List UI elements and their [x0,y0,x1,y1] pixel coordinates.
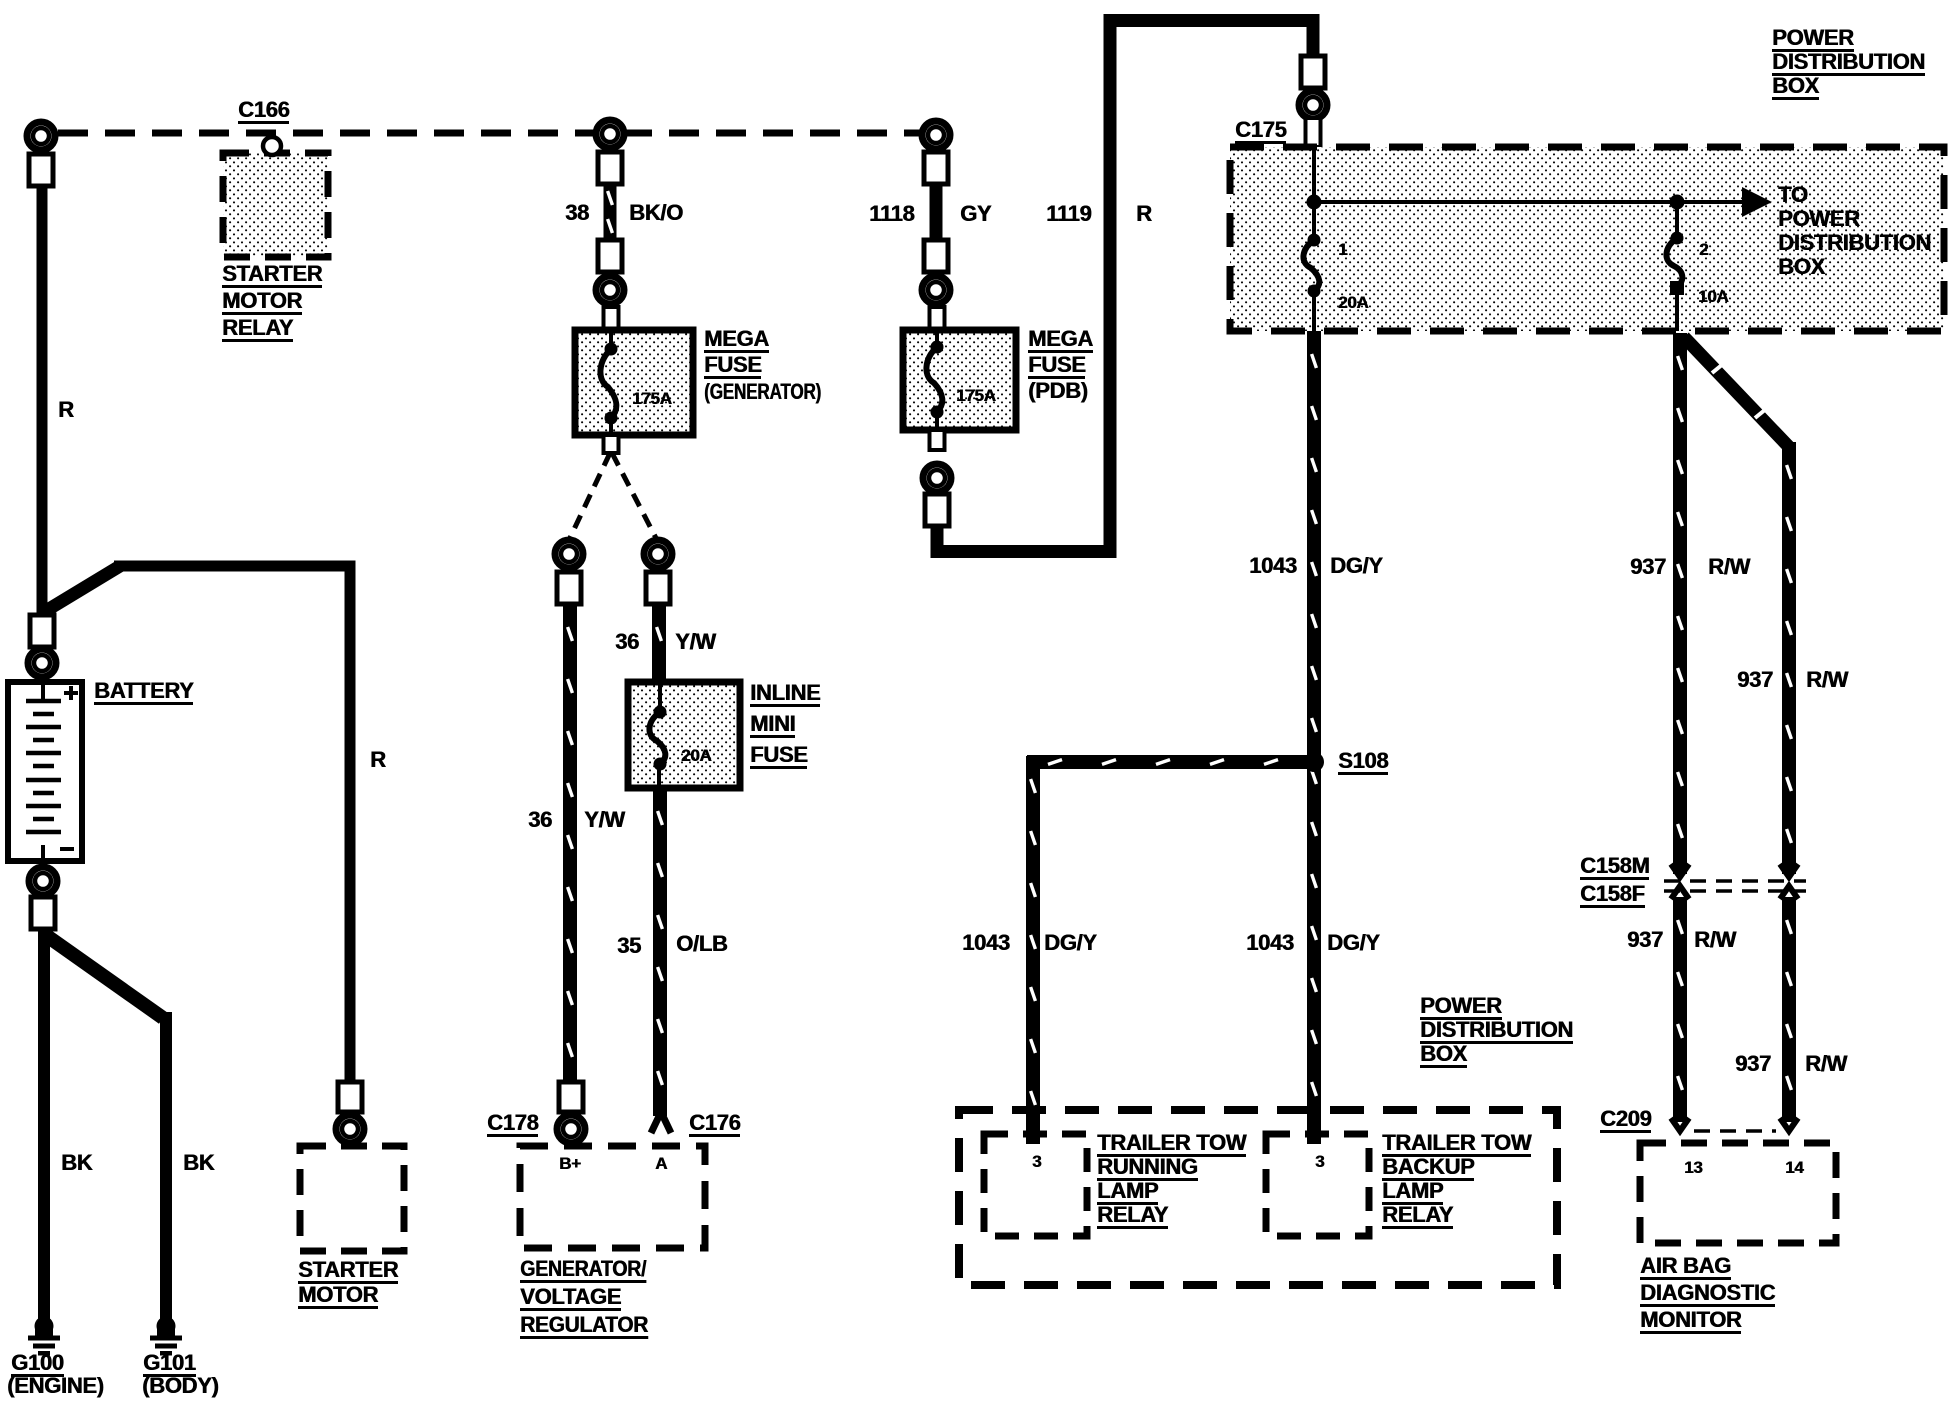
label 937 lower right [1735,1053,1771,1075]
label MONITOR [1640,1309,1741,1334]
label REGULATOR [520,1314,648,1339]
label pin B+ [559,1155,581,1172]
connector C158M/C158F [1664,864,1806,899]
wire 1119 R to C175 [931,14,1320,558]
label R/W mid left [1694,929,1736,951]
wire 937 R/W left below C158 [1673,897,1687,1122]
wire: dashed battery positive feed line C166 run [58,130,922,137]
generator/voltage regulator box (dashed) [520,1146,705,1248]
label POWER (to pdb) [1778,208,1860,230]
label TRAILER TOW (backup) [1382,1132,1531,1157]
starter motor relay box (stippled dashed) [223,137,328,257]
starter motor ring terminal [338,1082,362,1112]
label MINI [750,713,795,738]
label (ENGINE) [7,1375,104,1397]
label Y/W left [584,809,625,831]
label 1043 right [1246,932,1294,954]
label BATTERY [94,680,193,705]
label MOTOR (motor) [298,1284,378,1309]
label starter motor relay line1 [222,263,322,288]
label STARTER (motor) [298,1259,398,1284]
label R circuit 1119 [1136,203,1152,225]
label starter motor relay line3 [222,317,293,342]
battery B1 [8,682,82,861]
node junction at fuse 2 [1670,195,1685,210]
ring terminal wire 36 left [555,540,583,568]
label FUSE (PDB) line2 [1028,354,1085,379]
label pin 3 running [1032,1153,1041,1170]
label RUNNING [1097,1156,1198,1181]
label C176 [689,1112,740,1137]
fuse 1 20A [1303,234,1320,298]
label G100 [11,1352,64,1377]
label pin 14 [1785,1159,1803,1176]
label (GENERATOR) [704,381,821,403]
C175 stub into PDB [1306,118,1321,147]
wire 937 R/W diagonal branch [1684,337,1790,448]
label BOX (to pdb) [1778,256,1825,278]
label S108 [1338,750,1388,775]
wire 1043 DG/Y from fuse 1 to S108 and relay [1307,331,1321,1144]
label INLINE [750,682,820,707]
trailer tow running lamp relay box (dashed) [984,1134,1087,1236]
wire 38 BK/O [604,184,617,240]
label C209 [1600,1108,1651,1133]
label MEGA (generator) line1 [704,328,769,353]
label RELAY (running) [1097,1204,1168,1229]
inline mini fuse box [628,682,740,788]
label C166 [238,99,289,124]
label BK/O [629,202,683,224]
label DG/Y right [1327,932,1380,954]
trailer tow backup lamp relay box (dashed) [1266,1134,1369,1236]
mega fuse (generator) bottom stub [604,435,619,453]
mega fuse (PDB) top stub [930,307,945,330]
label BACKUP [1382,1156,1474,1181]
label DG/Y upper [1330,555,1383,577]
label FUSE inline [750,744,807,769]
arrow TO POWER DISTRIBUTION BOX [1314,187,1772,217]
ring terminal bottom of wire 38 [598,240,622,272]
label GY [960,203,991,225]
label C158F [1580,883,1645,908]
mega fuse (PDB) bottom stub [930,430,945,450]
label MEGA (PDB) line1 [1028,328,1093,353]
label DG/Y left [1044,932,1097,954]
connector C209 [1671,1118,1798,1131]
label 36 right [615,631,639,653]
label LAMP (running) [1097,1180,1158,1205]
label C158M [1580,855,1649,880]
label FUSE (generator) line2 [704,354,761,379]
label VOLTAGE [520,1286,621,1311]
label DISTRIBUTION title [1772,51,1925,76]
label BK left [61,1152,92,1174]
label pin 3 backup [1315,1153,1324,1170]
label LAMP (backup) [1382,1180,1443,1205]
label R/W upper left [1708,556,1750,578]
label pin 13 [1684,1159,1702,1176]
ring terminal bottom of wire 1118 [924,240,948,272]
mega fuse (generator) top stub [604,307,619,330]
label 175A PDB fuse [956,387,995,404]
label POWER mid [1420,995,1502,1020]
wire 937 R/W right below C158 [1782,897,1796,1122]
air bag diagnostic monitor box (dashed) [1640,1143,1836,1243]
label DIAGNOSTIC [1640,1282,1775,1307]
wire BK battery negative to G100 [38,928,50,1320]
mega fuse (PDB) box [903,330,1016,430]
label 20A inline fuse [681,747,711,764]
label RELAY (backup) [1382,1204,1453,1229]
label 1043 upper [1249,555,1297,577]
mega fuse (generator) box [575,330,693,435]
ring terminal at C166 line left end [27,122,55,150]
label GENERATOR/ [520,1258,646,1283]
label 1119 [1046,203,1091,225]
ring terminal wire 36 right [644,540,672,568]
label BOX mid [1420,1043,1467,1068]
label G101 [143,1352,196,1377]
label C175 [1235,119,1286,144]
wire 937 R/W left vertical from fuse 2 [1673,333,1687,874]
label starter motor relay line2 [222,290,302,315]
terminal C178 [559,1082,583,1112]
wire R from C166 line to battery [37,186,48,618]
label BK right [183,1152,214,1174]
ring terminal top of wire 38 [596,120,624,148]
label 1043 left [962,932,1010,954]
label POWER title [1772,27,1854,52]
label pin 1 [1338,241,1347,258]
trailer tow relays outer box (dashed) [959,1110,1557,1285]
connector C176 splay end [651,1112,671,1133]
wire 36 Y/W right upper [652,604,666,682]
PDB internal feed wire [1312,147,1316,240]
label 175A generator fuse [632,390,671,407]
label R/W lower right [1805,1053,1847,1075]
label C178 [487,1112,538,1137]
label pin 2 [1699,241,1708,258]
ground G100 [28,1317,60,1356]
label 10A fuse 2 [1698,288,1728,305]
label BOX title [1772,75,1819,100]
label R starter cable [370,749,386,771]
ground G101 [150,1317,182,1356]
wire branch to starter motor (diagonal+horizontal) [44,561,356,1083]
label R/W upper right [1806,669,1848,691]
label 937 mid left [1627,929,1663,951]
node junction at fuse 1 [1307,195,1322,210]
label TO [1778,184,1808,206]
wire 1043 DG/Y branch left from S108 [1027,755,1308,769]
label R battery cable [58,399,74,421]
wire 35 O/LB [653,788,667,1116]
ring terminal top of wire 1118 [922,121,950,149]
ring terminal below mega fuse PDB [923,464,951,492]
label 1118 [869,203,914,225]
wire 937 R/W right vertical [1782,442,1796,874]
label Y/W right [675,631,716,653]
label DISTRIBUTION mid [1420,1019,1573,1044]
wire BK branch to G101 (diagonal) [47,936,172,1320]
fuse 2 10A [1666,202,1684,331]
battery top ring terminal [30,615,54,647]
dashed split to generator terminals [569,453,657,540]
starter motor box (dashed) [300,1146,404,1251]
power distribution box (stippled dashed) [1230,147,1944,331]
label AIR BAG [1640,1255,1731,1280]
label (BODY) [142,1375,218,1397]
wire 1118 GY [930,184,943,240]
label 38 [565,202,589,224]
connector C175 ring terminal [1301,56,1325,88]
label 937 upper left [1630,556,1666,578]
battery bottom ring terminal [29,867,57,895]
splice S108 [1304,752,1324,772]
label (PDB) [1028,380,1088,402]
label 35 [617,935,641,957]
label O/LB [676,933,727,955]
label TRAILER TOW (running) [1097,1132,1246,1157]
wire 36 Y/W left [563,604,577,1082]
label 36 left [528,809,552,831]
label pin A [655,1155,667,1172]
label 937 upper right [1737,669,1773,691]
label 20A fuse 1 [1338,294,1368,311]
label DISTRIBUTION (to pdb) [1778,232,1931,254]
